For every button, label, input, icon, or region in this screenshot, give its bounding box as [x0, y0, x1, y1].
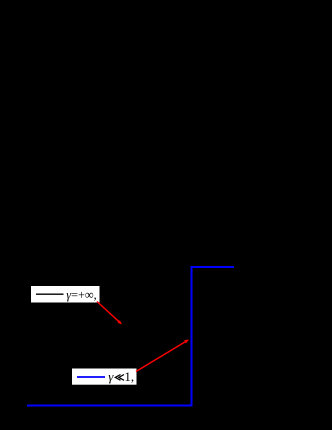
- legend sample line 1 (black): [36, 293, 64, 295]
- svg-text:γ=+∞,: γ=+∞,: [66, 287, 96, 302]
- legend text 2 : much-less-than chevron 2: [119, 375, 124, 381]
- red arrow 1 shaft: [97, 302, 119, 322]
- svg-text:1,: 1,: [124, 369, 134, 384]
- red arrow 1 head: [118, 320, 123, 324]
- blue step curve (gamma << 1): [27, 267, 234, 406]
- red arrow 2 shaft: [136, 342, 186, 372]
- red arrow 2 head: [184, 340, 189, 344]
- legend box 2 (gamma << 1): [72, 369, 137, 385]
- legend sample line 2 (blue): [77, 376, 105, 378]
- legend box 1 (gamma = +infinity): [31, 286, 100, 303]
- legend text 2 : much-less-than chevron 1: [115, 375, 120, 381]
- svg-text:γ: γ: [108, 369, 114, 384]
